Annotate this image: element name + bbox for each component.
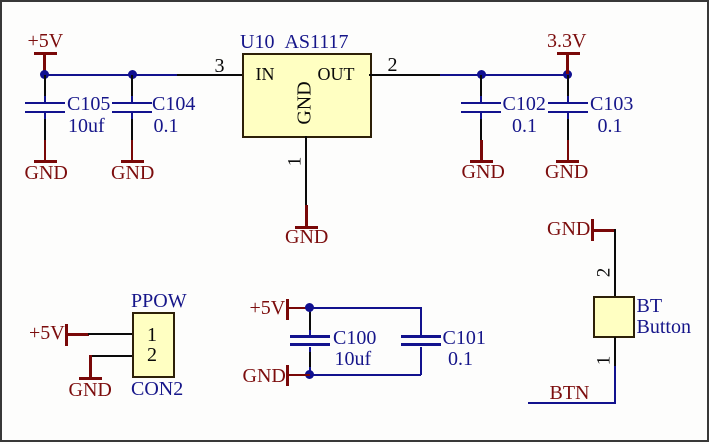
connector PPOW CON2 (0, 0, 709, 1)
pin 2 (BT) (594, 267, 613, 277)
capacitor C100 (0, 0, 709, 1)
wire GND to BT pin 2 (614, 229, 616, 296)
junction at C103 (563, 70, 572, 79)
power +5V (top left) (0, 0, 709, 1)
wire +5V to PPOW pin 1 (88, 333, 132, 335)
capacitor C102 (0, 0, 709, 1)
wire top rail C100 to C101 (0, 0, 709, 1)
power 3.3V (0, 0, 709, 1)
pin 1 (BT) (0, 0, 709, 1)
ground GND (C104) (0, 0, 709, 1)
junction bottom (C100 rail) (305, 370, 314, 379)
capacitor C104 (0, 0, 709, 1)
wire bottom rail C100 to C101 (0, 0, 709, 1)
junction at C104 (128, 70, 137, 79)
regulator U10 AS1117 (0, 0, 709, 1)
ground GND (C102) (0, 0, 709, 1)
wire PPOW pin 2 to GND (0, 0, 709, 1)
wire +5V to U10 pin 3 (44, 74, 178, 76)
ground GND (BT pin 2) (0, 0, 709, 1)
capacitor C101 (0, 0, 709, 1)
wire BT pin 1 to BTN (0, 0, 709, 1)
junction top (C100 rail) (305, 303, 314, 312)
power +5V (PPOW) (0, 0, 709, 1)
junction at C105 (40, 70, 49, 79)
pin 1 (U10) (0, 0, 709, 1)
ground GND (PPOW) (0, 0, 709, 1)
ground GND (C103) (0, 0, 709, 1)
net label BTN (550, 383, 590, 403)
pin 2 (U10) (0, 0, 709, 1)
ground GND (C100 rail) (0, 0, 709, 1)
junction at C102 (477, 70, 486, 79)
power +5V (C100 rail) (0, 0, 709, 1)
capacitor C103 (0, 0, 709, 1)
ground GND (U10 pin 1) (0, 0, 709, 1)
button BT (0, 0, 709, 1)
ground GND (C105) (0, 0, 709, 1)
wire U10 OUT to 3.3V rail (440, 74, 568, 76)
pin 3 (U10) (0, 0, 709, 1)
capacitor C105 (0, 0, 709, 1)
